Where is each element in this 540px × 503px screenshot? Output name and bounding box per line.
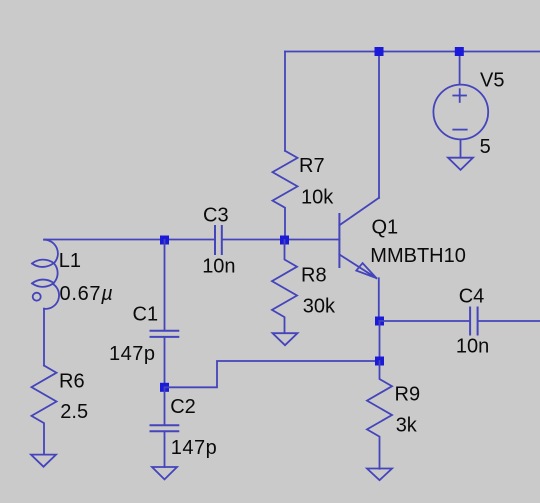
- wire emitter down: [378, 278, 380, 321]
- svg-text:10k: 10k: [301, 187, 334, 209]
- svg-text:C2: C2: [170, 396, 196, 418]
- svg-text:C1: C1: [133, 304, 159, 326]
- svg-text:C4: C4: [459, 285, 485, 307]
- svg-text:10n: 10n: [202, 256, 235, 278]
- svg-text:10n: 10n: [456, 335, 489, 357]
- wire base rail left: [45, 239, 215, 241]
- wire C1 to junction: [164, 338, 166, 388]
- svg-text:V5: V5: [480, 69, 504, 91]
- voltage source V5: [433, 85, 488, 140]
- ground R8: [273, 333, 298, 345]
- ground V5: [448, 158, 473, 170]
- wire feedback from C2 node to R9 node: [165, 361, 380, 387]
- junction node R9 top: [375, 357, 384, 366]
- wire L1 to R6: [43, 309, 45, 366]
- wire emitter node to R9 node: [379, 321, 381, 361]
- resistor R8: [272, 240, 297, 333]
- wire C4 branch right: [478, 320, 540, 322]
- svg-text:R7: R7: [299, 155, 325, 177]
- capacitor C1: [151, 331, 179, 337]
- wire R7 branch from rail: [284, 52, 286, 151]
- transistor Q1: [339, 198, 379, 278]
- junction node V5-rail: [455, 47, 464, 56]
- capacitor C3: [215, 226, 222, 254]
- wire C2 to ground: [164, 432, 166, 468]
- wire C4 branch left: [380, 320, 470, 322]
- resistor R7: [273, 151, 298, 240]
- junction node C2 top: [160, 383, 169, 392]
- inductor L1: [32, 240, 59, 309]
- svg-text:3k: 3k: [396, 414, 418, 436]
- svg-text:147p: 147p: [109, 343, 156, 365]
- svg-text:147p: 147p: [171, 437, 218, 459]
- resistor R6: [32, 366, 57, 455]
- junction node base-right: [280, 236, 289, 245]
- resistor R9: [367, 361, 392, 469]
- junction node C4 tap: [375, 317, 384, 326]
- capacitor C2: [151, 425, 179, 431]
- svg-text:0.67µ: 0.67µ: [60, 283, 114, 305]
- ground R9: [367, 469, 392, 481]
- wire junction to C2: [164, 387, 166, 425]
- wire base rail right: [223, 239, 340, 241]
- wire V5 to ground: [460, 139, 462, 157]
- junction node base-left: [160, 236, 169, 245]
- svg-text:30k: 30k: [303, 295, 336, 317]
- svg-text:R9: R9: [395, 383, 421, 405]
- svg-text:R6: R6: [59, 371, 85, 393]
- svg-text:R8: R8: [301, 264, 327, 286]
- junction node collector-rail: [375, 47, 384, 56]
- wire collector to rail: [378, 52, 380, 198]
- svg-text:2.5: 2.5: [60, 401, 88, 423]
- capacitor C4: [470, 308, 478, 335]
- ground C2: [152, 467, 177, 479]
- ground R6: [31, 455, 56, 467]
- svg-text:MMBTH10: MMBTH10: [370, 245, 466, 267]
- wire top power rail: [285, 51, 540, 53]
- wire C1 branch: [164, 240, 166, 330]
- svg-text:L1: L1: [59, 250, 81, 272]
- svg-text:C3: C3: [203, 205, 229, 227]
- svg-text:5: 5: [480, 136, 491, 158]
- wire V5 top: [459, 52, 461, 85]
- svg-text:Q1: Q1: [372, 216, 399, 238]
